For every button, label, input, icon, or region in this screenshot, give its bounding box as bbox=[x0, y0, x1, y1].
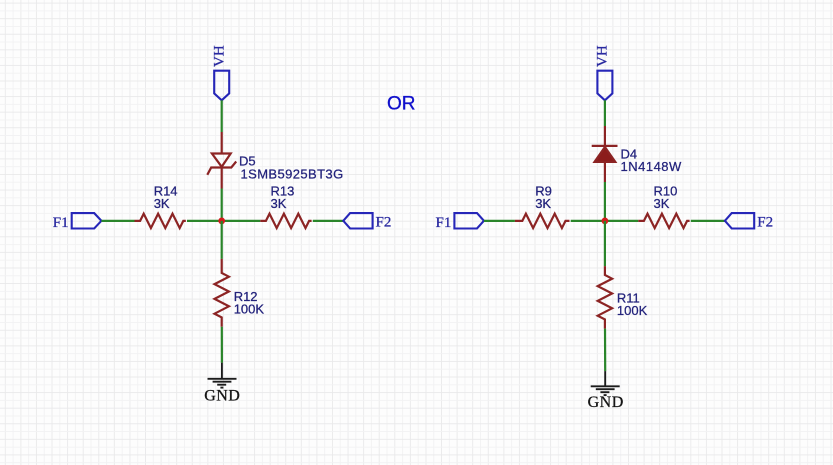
wire VH to D5 bbox=[221, 100, 223, 132]
resistor R11 bbox=[598, 266, 612, 329]
wire F1 to R9 bbox=[484, 220, 515, 222]
svg-text:3K: 3K bbox=[654, 196, 670, 211]
power port VH (right) bbox=[597, 71, 612, 101]
svg-text:3K: 3K bbox=[154, 196, 170, 211]
port F2 (left) bbox=[343, 213, 372, 228]
svg-text:GND: GND bbox=[204, 388, 240, 405]
wire R12 to GND bbox=[221, 327, 223, 363]
wire R10 to F2 bbox=[691, 220, 725, 222]
wire D5 to junction bbox=[221, 189, 223, 221]
diode D4 bbox=[592, 126, 618, 182]
wire junction to R11 bbox=[604, 221, 606, 266]
wire R14 to junction bbox=[187, 220, 222, 222]
svg-text:F2: F2 bbox=[376, 214, 392, 230]
resistor R10 bbox=[638, 214, 689, 228]
wire F1 to R14 bbox=[101, 220, 134, 222]
svg-text:F1: F1 bbox=[53, 215, 69, 231]
wire junction to R12 bbox=[221, 221, 223, 259]
junction (right node) bbox=[602, 218, 609, 225]
svg-text:1N4148W: 1N4148W bbox=[621, 159, 683, 174]
svg-text:1SMB5925BT3G: 1SMB5925BT3G bbox=[241, 166, 344, 181]
svg-text:GND: GND bbox=[588, 394, 624, 411]
resistor R14 bbox=[135, 214, 186, 228]
resistor R13 bbox=[260, 214, 311, 228]
port F2 (right) bbox=[725, 213, 754, 228]
svg-text:VH: VH bbox=[212, 45, 228, 67]
port F1 (left) bbox=[72, 213, 102, 228]
svg-text:F2: F2 bbox=[757, 214, 773, 230]
ground symbol (left) bbox=[208, 363, 237, 388]
svg-text:100K: 100K bbox=[617, 303, 648, 318]
wire R13 to F2 bbox=[313, 220, 344, 222]
wire VH to D4 bbox=[604, 100, 606, 126]
svg-text:F1: F1 bbox=[436, 215, 452, 231]
svg-text:3K: 3K bbox=[271, 196, 287, 211]
wire R9 to junction bbox=[571, 220, 605, 222]
wire junction to R10 bbox=[605, 220, 638, 222]
zener diode D5 bbox=[207, 132, 236, 189]
svg-text:VH: VH bbox=[595, 45, 611, 67]
junction (left node) bbox=[218, 218, 225, 225]
power port VH (left) bbox=[214, 71, 229, 101]
svg-text:OR: OR bbox=[387, 93, 416, 114]
port F1 (right) bbox=[454, 213, 484, 228]
svg-text:3K: 3K bbox=[535, 196, 551, 211]
wire R11 to GND bbox=[604, 329, 606, 372]
wire junction to R13 bbox=[222, 220, 261, 222]
resistor R12 bbox=[215, 259, 229, 327]
resistor R9 bbox=[515, 214, 570, 228]
svg-text:100K: 100K bbox=[234, 302, 265, 317]
wire D4 to junction bbox=[604, 182, 606, 221]
ground symbol (right) bbox=[591, 371, 620, 395]
